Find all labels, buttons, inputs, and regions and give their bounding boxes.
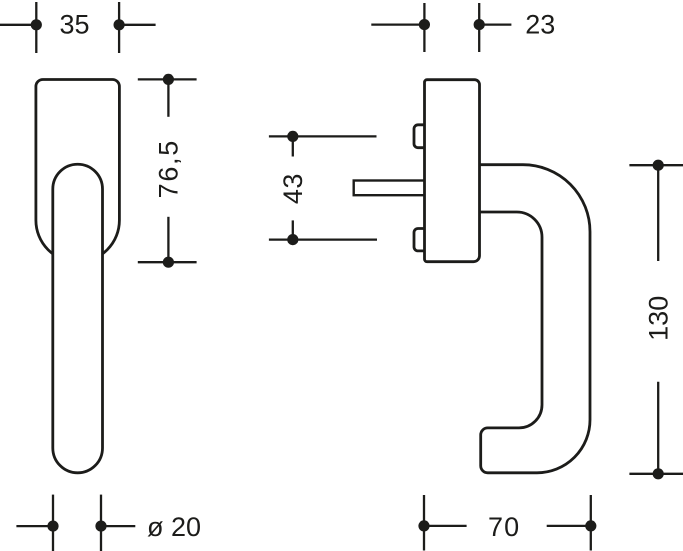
dim 76,5 dots	[163, 74, 174, 85]
svg-text:130: 130	[644, 296, 674, 341]
dim 23 dots	[419, 19, 430, 30]
dim 35 dots	[31, 19, 42, 30]
rose plate front view	[36, 80, 120, 263]
svg-text:43: 43	[278, 173, 308, 204]
screw lug bottom	[414, 229, 430, 251]
svg-text:ø 20: ø 20	[147, 512, 201, 542]
dim 23 lines	[371, 23, 424, 25]
svg-text:76,5: 76,5	[153, 139, 183, 198]
dim 130 lines	[629, 164, 683, 166]
svg-text:23: 23	[525, 10, 555, 40]
dim 130 dots	[653, 160, 664, 171]
dim 43 lines	[269, 135, 377, 137]
dim dia20 dots	[47, 521, 58, 532]
spindle	[354, 181, 430, 196]
handle side view (neck+grip+stub)	[478, 165, 590, 473]
svg-text:35: 35	[59, 10, 89, 40]
screw lug top	[414, 125, 430, 148]
dim 76,5 lines	[138, 78, 197, 80]
svg-text:70: 70	[488, 512, 520, 542]
dim dia20 lines	[16, 525, 53, 527]
dim 35 lines	[0, 24, 36, 26]
dim 70 dots	[418, 520, 429, 531]
rose plate side view	[425, 80, 480, 262]
grip front view	[53, 164, 103, 473]
dim 43 dots	[287, 131, 298, 142]
dim 70 lines	[424, 525, 467, 527]
